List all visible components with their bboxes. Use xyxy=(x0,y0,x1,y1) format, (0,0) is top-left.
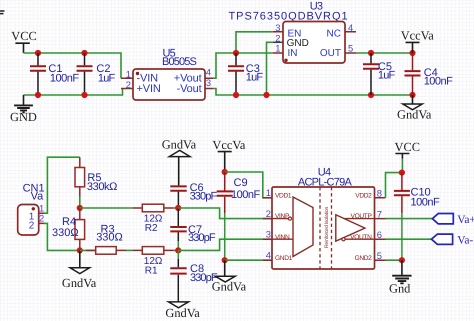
resistor R3 xyxy=(86,223,126,254)
svg-text:GndVa: GndVa xyxy=(165,306,200,320)
svg-text:330Ω: 330Ω xyxy=(52,227,79,239)
wire R1 to C7/C8 junction xyxy=(174,249,179,251)
svg-text:VccVa: VccVa xyxy=(401,28,435,42)
svg-text:Va-: Va- xyxy=(457,234,473,246)
wire GND rail to U5 pin2 xyxy=(24,89,123,96)
svg-text:330Ω: 330Ω xyxy=(96,232,123,244)
junction top rail at C1 xyxy=(35,50,41,56)
svg-text:Reinforced Isolation: Reinforced Isolation xyxy=(324,207,330,249)
svg-text:OUT: OUT xyxy=(320,48,341,59)
svg-text:330kΩ: 330kΩ xyxy=(87,181,117,193)
ground GndVa under C4 xyxy=(397,95,432,121)
junction bottom rail at C2 xyxy=(81,92,87,98)
junction bottom rail at C4 xyxy=(409,92,415,98)
wire U5 +Vout to U3 IN xyxy=(213,53,273,78)
wire VDD2 net xyxy=(386,173,402,198)
svg-text:5: 5 xyxy=(377,250,382,261)
svg-text:+VIN: +VIN xyxy=(137,83,161,95)
svg-text:IN: IN xyxy=(288,48,298,59)
wire VCC rail to U5 pin1 xyxy=(24,53,122,78)
wire VOUTP net xyxy=(386,218,433,220)
wire VOUTN net xyxy=(386,238,432,240)
svg-text:GndVa: GndVa xyxy=(162,137,197,151)
capacitor C4 xyxy=(405,53,454,95)
power flag VccVa above C9 xyxy=(212,138,246,172)
wire R2 to C6/C7 junction xyxy=(174,207,179,209)
svg-text:7: 7 xyxy=(377,208,382,219)
power flag VCC xyxy=(11,29,36,53)
junction C7/C8 row xyxy=(175,247,181,253)
svg-text:GndVa: GndVa xyxy=(212,280,247,294)
svg-text:C9: C9 xyxy=(234,177,248,189)
svg-text:3: 3 xyxy=(206,77,211,88)
port Va+ xyxy=(432,214,474,226)
DC-DC converter U5 xyxy=(121,48,213,101)
wire CN1 pin1 to R5 xyxy=(44,157,80,213)
junction bottom rail at C1 xyxy=(35,92,41,98)
svg-text:2: 2 xyxy=(39,213,44,224)
svg-text:1: 1 xyxy=(266,187,271,198)
svg-text:8: 8 xyxy=(377,188,382,199)
voltage regulator U3 xyxy=(229,1,357,64)
svg-text:100nF: 100nF xyxy=(424,75,453,87)
junction VCC/C10/VDD2 xyxy=(399,170,405,176)
wire GND2 net xyxy=(386,259,402,261)
wire U3 GND branch xyxy=(267,42,273,95)
capacitor C7 xyxy=(170,208,216,250)
wire R3 row left xyxy=(80,249,96,251)
svg-text:GndVa: GndVa xyxy=(397,107,432,121)
svg-text:100nF: 100nF xyxy=(411,197,440,209)
junction C9/GND1/GndVa xyxy=(222,257,228,263)
capacitor C3 xyxy=(228,53,263,95)
svg-text:-Vout: -Vout xyxy=(177,83,202,95)
svg-text:5: 5 xyxy=(348,43,353,54)
capacitor C5 xyxy=(363,53,396,95)
svg-text:R1: R1 xyxy=(145,266,158,277)
capacitor C1 xyxy=(30,53,79,95)
capacitor C10 xyxy=(394,173,440,261)
svg-text:VDD2: VDD2 xyxy=(355,192,372,199)
svg-text:2: 2 xyxy=(126,79,131,90)
wire GndVa bottom rail xyxy=(213,89,413,96)
svg-text:GndVa: GndVa xyxy=(62,276,97,290)
svg-text:4: 4 xyxy=(206,67,211,78)
wire EN branch xyxy=(236,32,273,53)
capacitor C6 xyxy=(170,182,217,208)
resistor R4 xyxy=(52,208,85,250)
svg-text:GND1: GND1 xyxy=(275,255,293,262)
resistor R2 xyxy=(133,204,174,234)
ground GndVa under C9 xyxy=(212,260,247,294)
svg-text:100nF: 100nF xyxy=(231,189,260,201)
svg-text:3: 3 xyxy=(266,229,271,240)
svg-text:3: 3 xyxy=(275,22,280,33)
wire CN1 pin2 to GndVa row xyxy=(44,223,80,250)
junction bottom rail at C3 xyxy=(233,92,239,98)
junction VOUT net at C3 xyxy=(233,50,239,56)
wire VDD1 net xyxy=(225,172,272,198)
wire U3 OUT to VccVa xyxy=(356,52,413,54)
wire GND1 net xyxy=(225,259,272,261)
svg-text:Gnd: Gnd xyxy=(389,281,411,295)
svg-text:1: 1 xyxy=(275,43,280,54)
capacitor C2 xyxy=(77,53,116,95)
power flag VccVa top-right xyxy=(401,28,435,53)
capacitor C9 xyxy=(217,172,261,260)
resistor R5 xyxy=(75,157,117,208)
svg-text:6: 6 xyxy=(377,229,382,240)
wire R2 row left segment xyxy=(80,207,133,209)
svg-text:VCC: VCC xyxy=(11,29,36,43)
svg-text:Va: Va xyxy=(31,190,45,202)
capacitor C8 xyxy=(170,250,218,301)
isolation amplifier U4 xyxy=(263,166,386,269)
svg-text:2: 2 xyxy=(266,208,271,219)
wire VINP jog xyxy=(178,208,272,219)
svg-text:330pF: 330pF xyxy=(188,232,216,244)
wire VINN jog xyxy=(178,239,272,250)
resistor R1 xyxy=(133,247,174,277)
svg-text:VccVa: VccVa xyxy=(212,138,246,152)
svg-text:100nF: 100nF xyxy=(50,72,79,84)
junction R5/R4/R2 row xyxy=(77,205,83,211)
svg-text:1uF: 1uF xyxy=(98,72,116,84)
svg-text:Va+: Va+ xyxy=(457,214,474,226)
svg-text:2: 2 xyxy=(275,32,280,43)
svg-text:4: 4 xyxy=(348,22,353,33)
svg-text:2: 2 xyxy=(29,220,35,231)
power flag GndVa above C6 xyxy=(162,137,197,185)
connector CN1 xyxy=(18,182,45,235)
svg-text:VCC: VCC xyxy=(395,140,420,154)
svg-text:NC: NC xyxy=(327,29,341,40)
junction bottom rail at U3 GND branch xyxy=(263,92,269,98)
svg-text:R2: R2 xyxy=(145,223,158,234)
ground Gnd earth symbol xyxy=(389,260,412,295)
junction OUT rail at C5 xyxy=(368,50,374,56)
svg-text:4: 4 xyxy=(266,250,271,261)
junction top rail at C2 xyxy=(81,50,87,56)
svg-text:GND: GND xyxy=(10,110,37,124)
junction GND2/C10/Gnd xyxy=(399,257,405,263)
power flag VCC right xyxy=(395,140,420,173)
ground GndVa under C8 xyxy=(165,302,200,320)
junction bottom rail at C5 xyxy=(368,92,374,98)
ground GND xyxy=(10,95,37,124)
ground GndVa under R4 xyxy=(62,250,97,290)
cropped mark top-left xyxy=(0,11,5,14)
svg-text:330pF: 330pF xyxy=(190,190,218,202)
junction OUT rail at C4 xyxy=(409,50,415,56)
svg-text:VDD1: VDD1 xyxy=(275,192,292,199)
svg-text:1uF: 1uF xyxy=(246,72,264,84)
junction C6/C7 row xyxy=(175,205,181,211)
junction R4/GndVa/R3 row xyxy=(77,247,83,253)
svg-text:GND2: GND2 xyxy=(355,255,373,262)
junction VccVa/C9/VDD1 xyxy=(222,169,228,175)
svg-text:B0505S: B0505S xyxy=(162,56,197,68)
svg-text:1uF: 1uF xyxy=(378,69,396,81)
wire R3 to R1 xyxy=(126,249,133,251)
port Va- xyxy=(432,234,474,246)
